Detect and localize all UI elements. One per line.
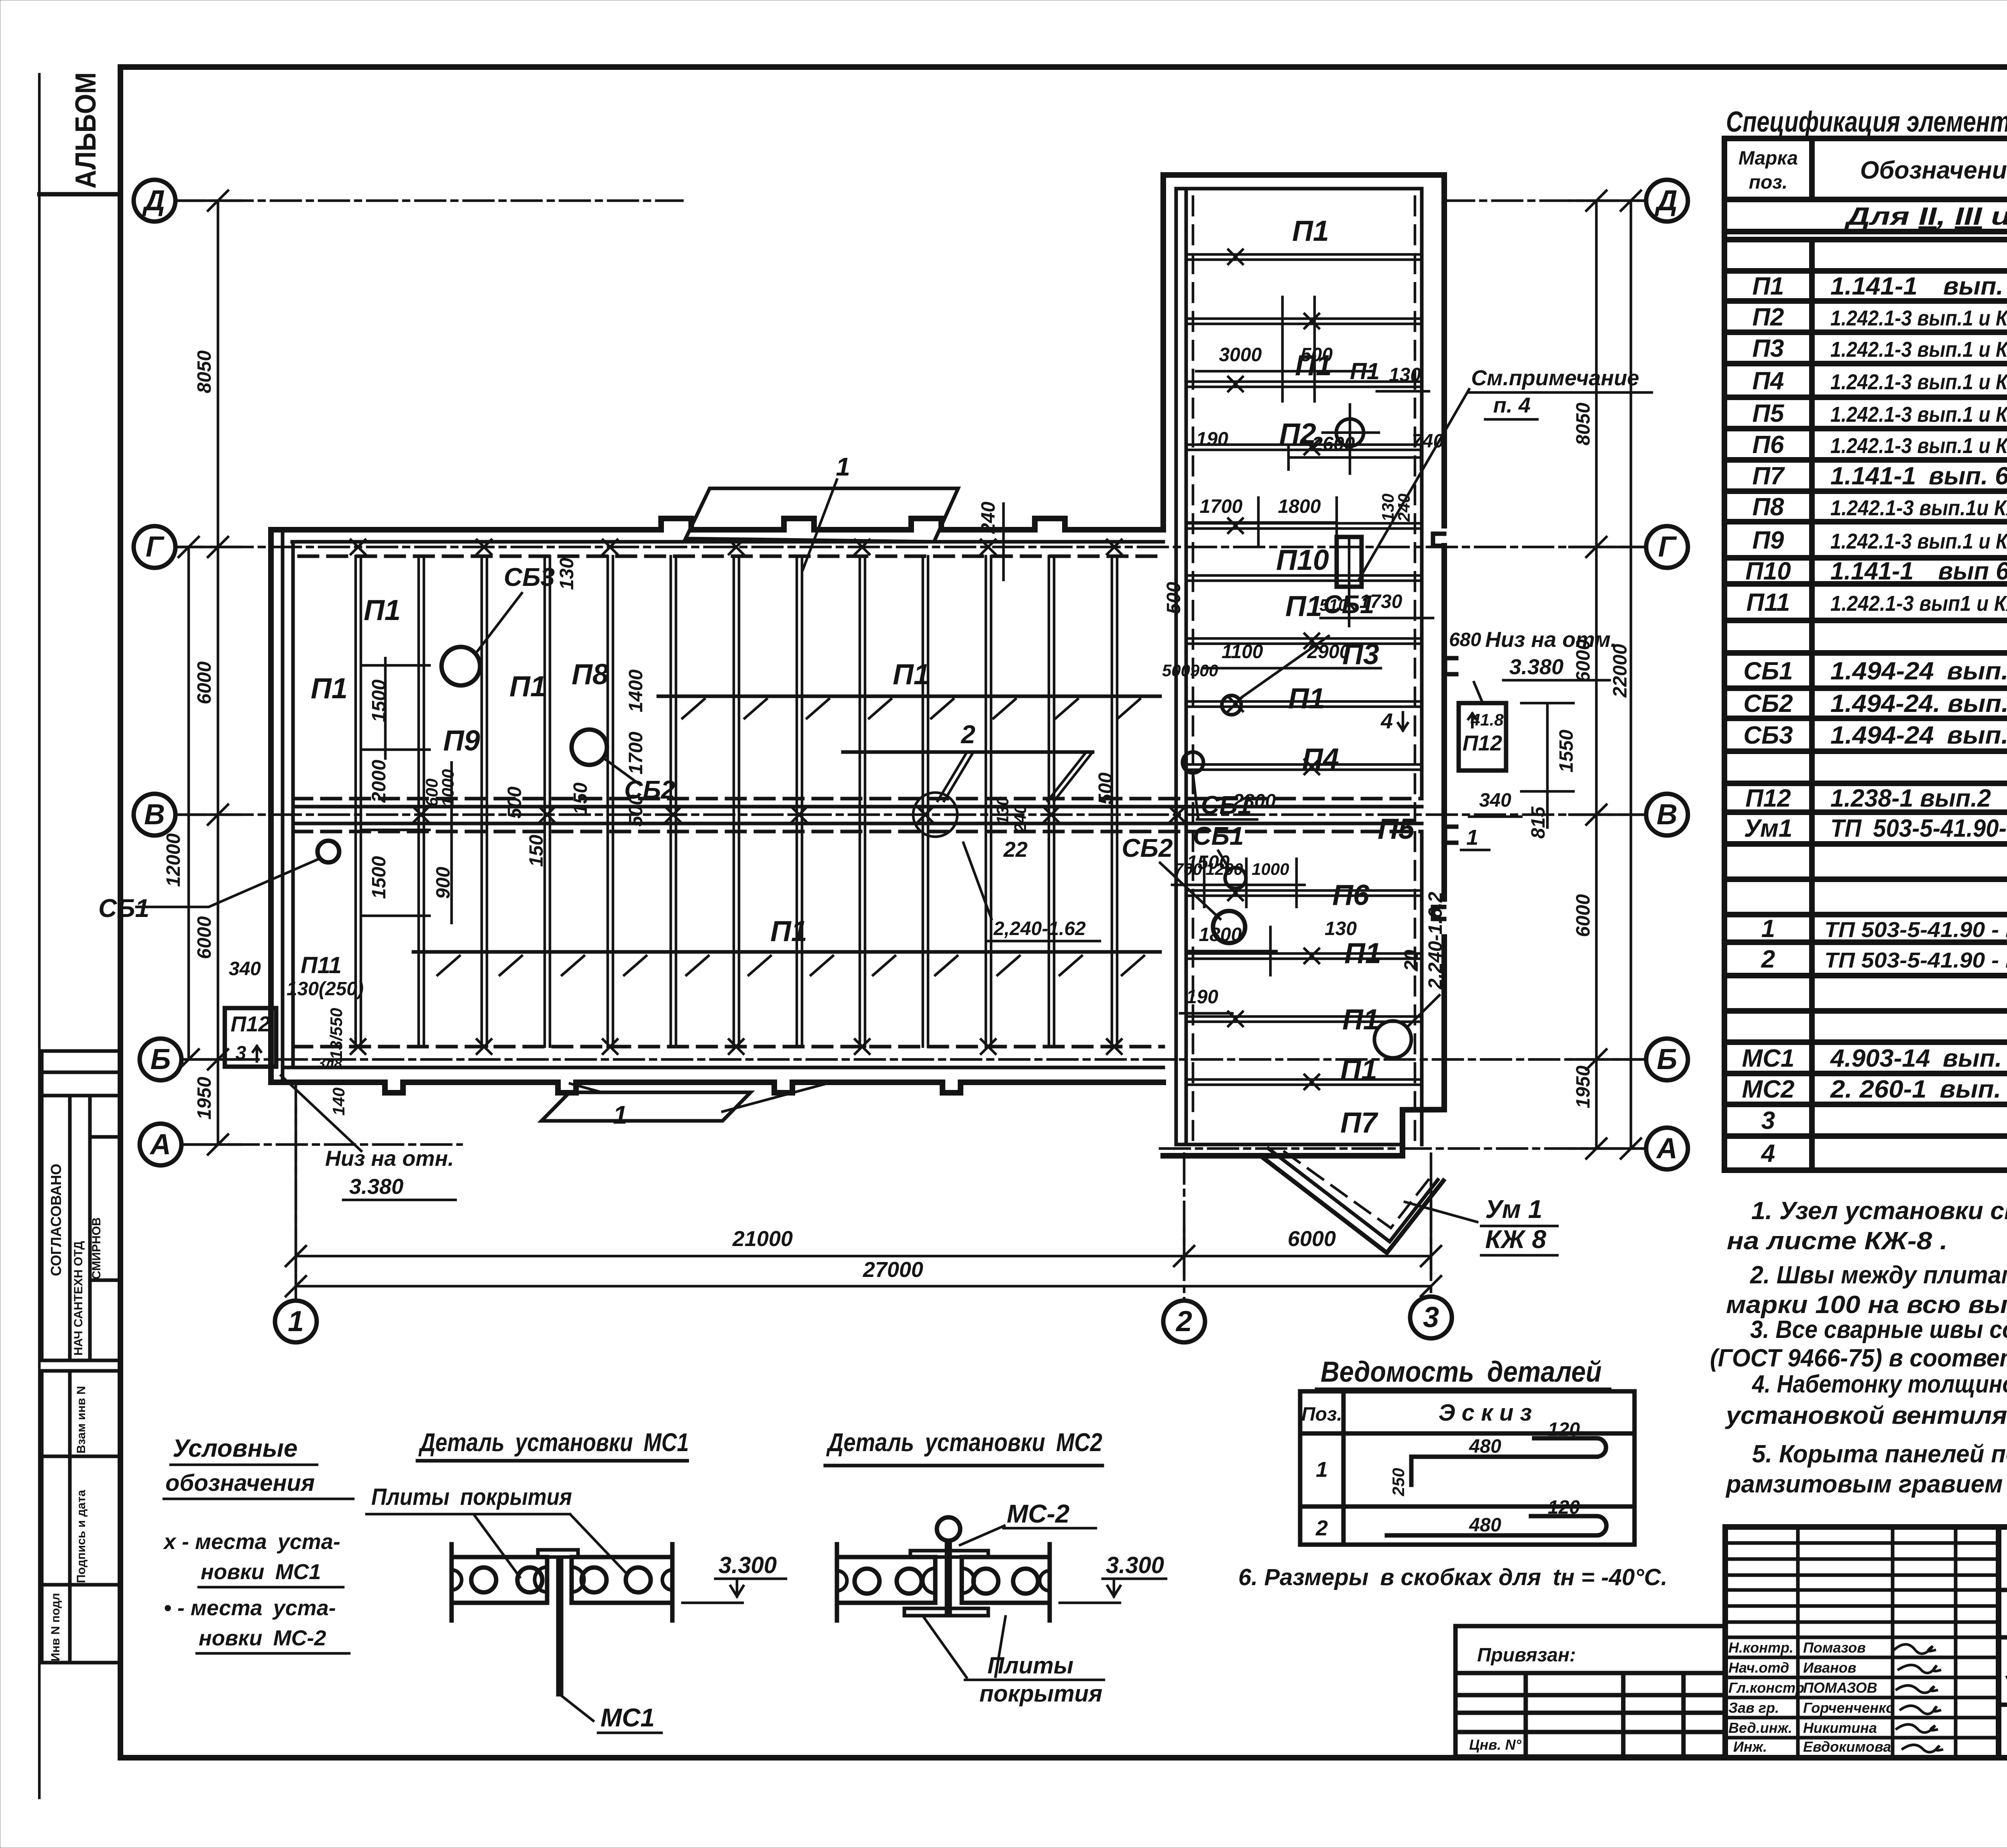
svg-text:3000: 3000 xyxy=(1219,344,1262,366)
svg-text:на листе КЖ-8 .: на листе КЖ-8 . xyxy=(1727,1227,1948,1255)
svg-text:2800: 2800 xyxy=(1233,791,1276,812)
row П1 xyxy=(1752,272,2007,300)
svg-text:П11: П11 xyxy=(1746,589,1790,616)
MC2 плиты покрытия label xyxy=(923,1616,1006,1677)
svg-text:П10: П10 xyxy=(1745,557,1791,585)
row П6 xyxy=(1752,431,2007,459)
svg-text:1000: 1000 xyxy=(438,769,457,807)
axis В wall lines through wing xyxy=(293,805,1422,809)
svg-text:1000: 1000 xyxy=(1252,860,1289,878)
svg-text:Иванов: Иванов xyxy=(1803,1659,1856,1676)
svg-text:П8: П8 xyxy=(572,659,609,691)
привязан box xyxy=(1455,1626,1725,1757)
signatures squiggles xyxy=(1895,1645,1942,1752)
row МС1 xyxy=(1742,1045,2007,1072)
svg-text:4. Набетонку толщиной 300 мм: 4. Набетонку толщиной 300 мм выполнить о… xyxy=(1751,1370,2007,1398)
svg-text:Вед.инж.: Вед.инж. xyxy=(1728,1720,1792,1736)
svg-text:покрытия: покрытия xyxy=(979,1681,1102,1707)
svg-text:П2: П2 xyxy=(1752,303,1784,331)
svg-text:1.141-1 вып. 64: 1.141-1 вып. 64 xyxy=(1830,272,2007,300)
MC1 label xyxy=(561,1696,593,1721)
svg-text:6000: 6000 xyxy=(1288,1227,1336,1251)
svg-text:Д: Д xyxy=(142,185,165,217)
svg-text:1400: 1400 xyxy=(625,669,647,712)
axis circle В left xyxy=(134,794,175,836)
svg-text:130: 130 xyxy=(1389,364,1421,386)
svg-text:Привязан:: Привязан: xyxy=(1477,1645,1576,1666)
svg-text:Б: Б xyxy=(1657,1043,1677,1075)
right wing outer walls xyxy=(1163,175,1444,1156)
axis Б line xyxy=(181,1058,1647,1061)
svg-text:1200: 1200 xyxy=(1205,860,1243,878)
axis circle 3 bottom xyxy=(1410,1297,1452,1338)
svg-text:Ведомость деталей: Ведомость деталей xyxy=(1321,1356,1602,1388)
СБ1 leader to small circle xyxy=(1240,636,1329,698)
svg-text:12000: 12000 xyxy=(163,833,184,887)
svg-text:П4: П4 xyxy=(1302,743,1339,775)
svg-text:3.300: 3.300 xyxy=(719,1552,777,1578)
svg-text:Условные: Условные xyxy=(173,1435,297,1462)
left wing left wall xyxy=(268,530,274,1082)
vent sleeve СБ2 circle xyxy=(571,730,607,765)
row П5 xyxy=(1752,400,2007,427)
svg-text:Взам инв N: Взам инв N xyxy=(75,1386,88,1454)
svg-text:МС-2: МС-2 xyxy=(1007,1499,1069,1528)
callout 2 leader xyxy=(843,720,1093,801)
stamp block 1 (approved) xyxy=(42,1051,120,1360)
axis circle Б left xyxy=(140,1039,181,1080)
bottom dim line 21000 / 6000 xyxy=(286,1108,1441,1276)
svg-text:1.242.1-3 вып.1 и КЖИ-07: 1.242.1-3 вып.1 и КЖИ-07 xyxy=(1830,529,2007,553)
svg-text:500: 500 xyxy=(504,787,525,819)
axis В line xyxy=(175,813,1647,816)
axis circle 1 bottom xyxy=(275,1301,317,1342)
left dim line 8050/6000/6000/1950 xyxy=(175,191,241,1155)
MC2 slab section xyxy=(837,1544,1050,1620)
svg-text:680: 680 xyxy=(1449,629,1481,651)
svg-text:ПОМАЗОВ: ПОМАЗОВ xyxy=(1803,1679,1877,1696)
svg-text:П2: П2 xyxy=(1279,418,1316,450)
svg-text:6000: 6000 xyxy=(194,916,215,959)
svg-text:П1: П1 xyxy=(364,594,401,626)
leader низ на отн left xyxy=(281,1075,361,1151)
svg-text:Низ на отн.: Низ на отн. xyxy=(325,1147,454,1171)
svg-text:21000: 21000 xyxy=(732,1227,793,1251)
svg-text:3.300: 3.300 xyxy=(1106,1552,1164,1578)
svg-text:П1: П1 xyxy=(1350,358,1380,384)
svg-text:1. Узел установки стаканов: 1. Узел установки стаканов СБ1 ÷ СБ3 на … xyxy=(1751,1197,2007,1225)
svg-text:2: 2 xyxy=(961,720,975,749)
svg-text:марки 100 на всю высоту шва.: марки 100 на всю высоту шва. xyxy=(1726,1291,2007,1319)
svg-text:МС2: МС2 xyxy=(1742,1075,1795,1103)
svg-text:2,240-1.62: 2,240-1.62 xyxy=(993,918,1086,939)
svg-text:3: 3 xyxy=(236,1043,246,1064)
axis Д line xyxy=(175,199,682,202)
axis А line xyxy=(181,1143,462,1146)
П12 canopy box right xyxy=(1459,703,1506,771)
left wing top wall inner line xyxy=(292,540,1163,544)
svg-text:СМИРНОВ: СМИРНОВ xyxy=(90,1218,103,1280)
svg-text:П5: П5 xyxy=(1378,813,1415,845)
svg-text:П11: П11 xyxy=(301,952,342,978)
svg-text:140: 140 xyxy=(329,1088,348,1116)
svg-text:ТП 503-5-41.90-КЖ-8: ТП 503-5-41.90-КЖ-8 xyxy=(1830,815,2007,842)
row Ум1 xyxy=(1744,815,2007,842)
svg-text:Ум1: Ум1 xyxy=(1744,815,1793,842)
svg-text:1.242.1-3 вып.1 и КЖИ-01: 1.242.1-3 вып.1 и КЖИ-01 xyxy=(1830,306,2007,330)
svg-text:обозначения: обозначения xyxy=(165,1470,315,1496)
svg-text:П12: П12 xyxy=(1463,731,1502,755)
svg-text:П8: П8 xyxy=(1752,493,1784,521)
svg-text:В: В xyxy=(1657,799,1677,831)
svg-text:АЛЬБОМ: АЛЬБОМ xyxy=(70,72,102,189)
svg-text:СБ1: СБ1 xyxy=(98,894,149,923)
svg-text:новки МС1: новки МС1 xyxy=(201,1560,321,1584)
svg-text:Подпись и дата: Подпись и дата xyxy=(75,1490,88,1583)
row П7 xyxy=(1752,462,2007,490)
fan hole circle П2 xyxy=(1323,405,1379,474)
svg-text:3.380: 3.380 xyxy=(349,1175,403,1199)
svg-text:Ум 1: Ум 1 xyxy=(1485,1195,1542,1224)
axis Г line xyxy=(175,546,1647,549)
svg-text:Обозначение: Обозначение xyxy=(1860,157,2007,184)
svg-text:П1: П1 xyxy=(509,671,546,703)
svg-text:П1: П1 xyxy=(311,673,348,705)
fan opening rect xyxy=(1337,537,1362,587)
svg-text:Низ на отм.: Низ на отм. xyxy=(1485,628,1616,652)
title block outer xyxy=(1725,1527,2007,1758)
weld circle at В xyxy=(913,793,957,837)
svg-text:П6: П6 xyxy=(1752,431,1784,459)
svg-text:150: 150 xyxy=(570,783,591,815)
svg-text:П5: П5 xyxy=(1752,400,1785,427)
axis circle Д right xyxy=(1646,180,1688,222)
svg-text:190: 190 xyxy=(1186,986,1218,1008)
vent sleeve СБ1 circle xyxy=(318,841,339,862)
axis 3 vertical dash-dot xyxy=(1430,1154,1433,1297)
svg-text:Для II, III и IV снеговых райо: Для II, III и IV снеговых районов xyxy=(1844,203,2007,230)
svg-text:Г: Г xyxy=(1658,531,1677,563)
svg-text:240: 240 xyxy=(1394,494,1413,522)
axis circle Д left xyxy=(134,180,175,222)
axis 1 vertical dash-dot xyxy=(295,1084,297,1301)
svg-text:1.494-24. вып.1: 1.494-24. вып.1 xyxy=(1830,690,2007,718)
weld detail circle bottom xyxy=(1374,1021,1411,1058)
svg-text:130: 130 xyxy=(1325,918,1357,939)
leader низ на отм right xyxy=(1474,682,1482,702)
svg-text:1.494-24 вып.1: 1.494-24 вып.1 xyxy=(1830,657,2007,685)
svg-text:СБ1: СБ1 xyxy=(1743,657,1793,685)
svg-text:Инв N подл: Инв N подл xyxy=(49,1593,62,1661)
right dim line 22000 xyxy=(1610,191,1641,1159)
row СБ3 xyxy=(1743,722,2007,749)
СБ3 leader and label xyxy=(478,593,522,651)
svg-text:480: 480 xyxy=(1469,1515,1501,1536)
svg-text:6. Размеры в скобках для tн =: 6. Размеры в скобках для tн = -40°C. xyxy=(1238,1564,1667,1590)
svg-text:Д: Д xyxy=(1654,185,1677,217)
album cell divider xyxy=(39,192,120,197)
svg-text:П4: П4 xyxy=(1752,367,1784,395)
СБ2 leader and label xyxy=(604,758,638,783)
svg-text:150: 150 xyxy=(526,835,547,867)
svg-text:А: А xyxy=(149,1128,171,1161)
svg-text:2.240-1.6.2: 2.240-1.6.2 xyxy=(1425,892,1446,990)
spec table grid xyxy=(1724,138,2007,1170)
svg-text:1500: 1500 xyxy=(368,856,390,899)
svg-text:Цнв. N°: Цнв. N° xyxy=(1469,1736,1522,1753)
row П2 xyxy=(1752,303,2007,331)
callout 1 bottom band xyxy=(541,1084,827,1129)
svg-text:Г: Г xyxy=(146,531,165,563)
svg-text:МС1: МС1 xyxy=(1742,1045,1795,1072)
svg-text:1950: 1950 xyxy=(1573,1065,1594,1108)
row 1 xyxy=(1761,915,2007,943)
slab joint lines right wing xyxy=(1186,254,1422,1085)
svg-text:Помазов: Помазов xyxy=(1803,1639,1866,1656)
svg-text:250: 250 xyxy=(1389,1468,1408,1496)
svg-text:МС1: МС1 xyxy=(600,1703,655,1732)
axis circle Г right xyxy=(1646,526,1688,568)
svg-text:Марка: Марка xyxy=(1738,148,1798,169)
MC1 anchor rod xyxy=(558,1557,562,1695)
svg-text:1.141-1 вып 64: 1.141-1 вып 64 xyxy=(1830,557,2007,585)
svg-text:П1: П1 xyxy=(1342,1004,1379,1036)
svg-text:1.242.1-3 вып.1 и КЖИ-03: 1.242.1-3 вып.1 и КЖИ-03 xyxy=(1830,370,2007,394)
svg-text:Нач.отд: Нач.отд xyxy=(1728,1659,1789,1676)
axis circle Б right xyxy=(1646,1039,1688,1080)
dim ticks cluster left xyxy=(363,665,429,916)
vent sleeve СБ3 circle xyxy=(441,647,480,685)
svg-text:• - места уста-: • - места уста- xyxy=(164,1596,336,1620)
svg-text:1.242.1-3 вып.1 и КЖИ-04: 1.242.1-3 вып.1 и КЖИ-04 xyxy=(1830,403,2007,427)
row П3 xyxy=(1752,335,2007,362)
row П8 xyxy=(1752,493,2007,521)
herringbone fill marks lower row xyxy=(438,956,1144,975)
svg-text:П1: П1 xyxy=(1292,215,1329,247)
vedomost table grid xyxy=(1300,1391,1635,1545)
svg-text:120: 120 xyxy=(1548,1419,1580,1440)
x marks on right wing joints xyxy=(1228,250,1319,1089)
svg-text:СБ1: СБ1 xyxy=(1193,821,1244,850)
svg-text:22000: 22000 xyxy=(1610,644,1631,698)
svg-text:1.242.1-3 вып.1 и КЖИ-05: 1.242.1-3 вып.1 и КЖИ-05 xyxy=(1830,434,2007,458)
MC1 slab section xyxy=(452,1544,672,1620)
svg-text:815: 815 xyxy=(1528,806,1549,839)
herringbone fill marks upper row xyxy=(682,699,1140,718)
svg-text:500: 500 xyxy=(1095,773,1116,805)
svg-text:П12: П12 xyxy=(1745,785,1791,812)
svg-text:П1: П1 xyxy=(1752,272,1784,300)
right wing inner wall lines xyxy=(1176,189,1186,1145)
svg-text:x - места уста-: x - места уста- xyxy=(163,1530,340,1554)
svg-text:1100: 1100 xyxy=(1221,641,1263,663)
svg-text:130: 130 xyxy=(556,558,578,590)
axis circle 2 bottom xyxy=(1163,1301,1205,1342)
svg-text:Э с к и з: Э с к и з xyxy=(1439,1400,1532,1426)
svg-text:П1: П1 xyxy=(893,659,930,691)
svg-text:5. Корыта панелей перекрытия: 5. Корыта панелей перекрытия марки ПР за… xyxy=(1752,1440,2007,1468)
svg-text:новки МС-2: новки МС-2 xyxy=(199,1626,326,1650)
svg-text:4: 4 xyxy=(1761,1140,1775,1167)
lower fill boundary line xyxy=(413,950,1160,954)
svg-text:1: 1 xyxy=(613,1100,627,1129)
svg-text:1.238-1 вып.2: 1.238-1 вып.2 xyxy=(1830,785,1991,812)
svg-text:3: 3 xyxy=(1423,1301,1439,1334)
svg-text:340: 340 xyxy=(229,958,261,980)
svg-text:Б: Б xyxy=(151,1043,171,1075)
right dim line 8050/6000/6000/1950 xyxy=(1569,191,1647,1159)
canopy diagonal bottom right xyxy=(1260,1149,1443,1253)
svg-text:3л8: 3л8 xyxy=(317,1055,342,1071)
callout 1 top band xyxy=(686,452,958,570)
svg-text:СОГЛАСОВАНО: СОГЛАСОВАНО xyxy=(48,1164,64,1276)
svg-text:П3: П3 xyxy=(1752,335,1784,362)
svg-text:1: 1 xyxy=(1466,825,1478,850)
svg-text:2000: 2000 xyxy=(368,760,390,803)
svg-text:120: 120 xyxy=(1548,1497,1580,1518)
label Ум1 КЖ8 xyxy=(1405,1202,1477,1222)
svg-text:СБ3: СБ3 xyxy=(504,563,555,592)
svg-text:П6: П6 xyxy=(1332,879,1370,911)
left dim line 12000 xyxy=(163,537,199,1069)
svg-text:900: 900 xyxy=(1190,661,1218,680)
svg-text:2: 2 xyxy=(1761,945,1775,973)
svg-text:Евдокимова: Евдокимова xyxy=(1803,1738,1891,1755)
axis circle А right xyxy=(1646,1128,1688,1169)
bottom dim line 27000 xyxy=(286,1258,1441,1296)
title block left grid xyxy=(1725,1527,1999,1758)
svg-text:6000: 6000 xyxy=(194,661,215,704)
svg-text:1.494-24 вып.1: 1.494-24 вып.1 xyxy=(1830,722,2007,749)
row 4 angle xyxy=(1761,1139,2007,1170)
svg-text:П1: П1 xyxy=(770,915,807,947)
svg-text:1700: 1700 xyxy=(625,732,647,775)
right wing slab edge dashed verticals xyxy=(1193,197,1415,1140)
svg-text:2600: 2600 xyxy=(1312,433,1355,455)
svg-text:Никитина: Никитина xyxy=(1803,1720,1877,1736)
svg-text:4: 4 xyxy=(1380,709,1393,733)
row СБ2 xyxy=(1743,690,2007,718)
svg-text:П7: П7 xyxy=(1752,462,1785,490)
svg-text:190: 190 xyxy=(1196,429,1228,450)
x marks on axis В joints xyxy=(414,807,1185,822)
svg-text:3.380: 3.380 xyxy=(1509,655,1563,679)
svg-text:Плиты покрытия: Плиты покрытия xyxy=(371,1484,572,1510)
svg-text:Спецификация элементов к схеме: Спецификация элементов к схеме расположе… xyxy=(1726,106,2007,138)
svg-text:20: 20 xyxy=(1401,949,1422,972)
svg-text:700: 700 xyxy=(1174,860,1202,878)
svg-text:Зав гр.: Зав гр. xyxy=(1728,1700,1779,1716)
svg-text:1550: 1550 xyxy=(1556,730,1577,773)
svg-text:Гл.констр: Гл.констр xyxy=(1728,1679,1804,1696)
svg-text:рамзитовым гравием ɣ = 500 к: рамзитовым гравием ɣ = 500 кг/см². xyxy=(1725,1470,2007,1498)
slab joint lines left wing xyxy=(356,556,1117,1047)
left wing outer top wall xyxy=(271,518,1163,530)
svg-text:4.903-14 вып. 3: 4.903-14 вып. 3 xyxy=(1830,1045,2007,1072)
axis circle А left xyxy=(140,1124,181,1165)
svg-text:1: 1 xyxy=(836,452,850,481)
svg-text:1: 1 xyxy=(288,1305,304,1338)
svg-text:3: 3 xyxy=(1761,1107,1775,1134)
svg-text:2. Швы между плитами заполн: 2. Швы между плитами заполнить цементным… xyxy=(1750,1261,2007,1289)
svg-text:НАЧ САНТЕХН ОТД: НАЧ САНТЕХН ОТД xyxy=(72,1241,85,1356)
svg-text:1.141-1 вып. 64: 1.141-1 вып. 64 xyxy=(1830,462,2007,490)
svg-text:500: 500 xyxy=(1162,661,1190,680)
svg-text:(ГОСТ 9466-75) в соответствии: (ГОСТ 9466-75) в соответствии с требован… xyxy=(1710,1344,2007,1372)
svg-text:П1: П1 xyxy=(1295,350,1332,382)
svg-text:СБ2: СБ2 xyxy=(1122,834,1172,862)
svg-text:П1: П1 xyxy=(1285,590,1322,622)
row 3 angle xyxy=(1761,1106,2007,1137)
svg-text:Плиты: Плиты xyxy=(987,1653,1073,1679)
svg-text:СБ1: СБ1 xyxy=(1323,590,1374,619)
см примечание п4 note xyxy=(1359,389,1469,580)
svg-text:1800: 1800 xyxy=(1278,496,1321,517)
x marks on axis Г joints xyxy=(351,540,1122,554)
upper fill boundary line xyxy=(658,695,1160,698)
svg-text:500: 500 xyxy=(1163,582,1185,614)
svg-text:П9: П9 xyxy=(443,725,480,757)
svg-text:КЖ 8: КЖ 8 xyxy=(1485,1225,1546,1254)
svg-text:ТП 503-5-41.90 - КЖ-7: ТП 503-5-41.90 - КЖ-7 xyxy=(1824,948,2007,972)
axis circle В right xyxy=(1646,794,1688,836)
row П12 xyxy=(1745,785,2007,812)
svg-text:Поз.: Поз. xyxy=(1301,1404,1342,1425)
svg-text:Здание автостанции: Здание автостанции xyxy=(2005,1656,2007,1688)
svg-text:1800: 1800 xyxy=(1199,924,1242,945)
svg-text:3. Все сварные швы соединен: 3. Все сварные швы соединений выполнить … xyxy=(1750,1316,2007,1344)
svg-text:2. 260-1 вып. 3: 2. 260-1 вып. 3 xyxy=(1830,1075,2007,1103)
svg-text:См.примечание: См.примечание xyxy=(1471,366,1639,390)
svg-text:6000: 6000 xyxy=(1573,894,1594,937)
svg-text:1.242.1-3 вып.1и КЖИ-06: 1.242.1-3 вып.1и КЖИ-06 xyxy=(1830,496,2007,520)
svg-text:Инж.: Инж. xyxy=(1733,1738,1767,1755)
svg-text:13/550: 13/550 xyxy=(327,1008,346,1059)
svg-text:поз.: поз. xyxy=(1749,172,1787,193)
svg-text:2900: 2900 xyxy=(1307,641,1350,663)
svg-text:130: 130 xyxy=(993,797,1012,825)
svg-text:480: 480 xyxy=(1469,1436,1501,1457)
MC1 bearing plate xyxy=(538,1550,578,1557)
row П4 xyxy=(1752,367,2007,395)
svg-text:В: В xyxy=(144,799,165,831)
svg-text:240: 240 xyxy=(978,502,999,534)
right wing wall notches right side xyxy=(1433,534,1456,919)
svg-text:240: 240 xyxy=(1011,805,1030,833)
MC2 label xyxy=(960,1526,1004,1545)
П12 canopy box left xyxy=(225,1008,276,1067)
svg-text:А: А xyxy=(1656,1132,1677,1165)
x marks on axis Б joints xyxy=(351,1039,1122,1054)
svg-text:ТП 503-5-41.90 - КЖ-7: ТП 503-5-41.90 - КЖ-7 xyxy=(1824,918,2007,942)
svg-text:П12: П12 xyxy=(231,1012,271,1036)
svg-text:СБ2: СБ2 xyxy=(1743,690,1793,718)
row 2 xyxy=(1761,945,2007,973)
stamp block 2 (signatures strip) xyxy=(42,1371,120,1663)
svg-text:8050: 8050 xyxy=(1573,403,1594,445)
svg-text:П10: П10 xyxy=(1276,544,1329,576)
svg-text:8050: 8050 xyxy=(194,350,215,393)
row П11 xyxy=(1746,589,2007,616)
svg-text:Н.контр.: Н.контр. xyxy=(1728,1639,1793,1656)
svg-text:1950: 1950 xyxy=(194,1077,215,1120)
row П10 xyxy=(1745,557,2007,585)
svg-text:П9: П9 xyxy=(1752,527,1784,554)
СБ1 leader and label xyxy=(136,859,319,907)
left wing top slab edge dashed xyxy=(299,555,1163,558)
svg-text:П1: П1 xyxy=(1344,937,1381,970)
row МС2 xyxy=(1742,1075,2007,1103)
